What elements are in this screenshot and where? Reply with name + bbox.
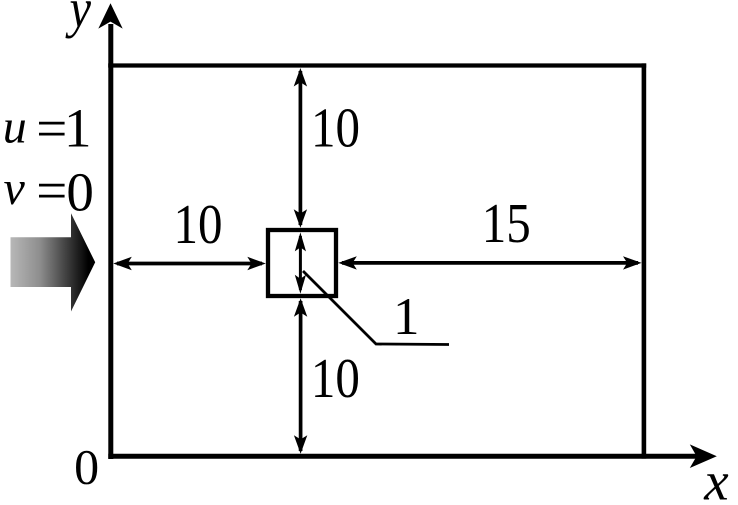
svg-text:1: 1 (393, 288, 420, 346)
svg-text:10: 10 (174, 194, 223, 256)
svg-text:v: v (4, 162, 26, 215)
bottom dimension arrow shaft (299, 301, 303, 451)
left dimension arrow shaft (117, 262, 262, 266)
svg-text:10: 10 (311, 348, 360, 410)
svg-text:y: y (65, 0, 92, 40)
svg-text:0: 0 (74, 438, 99, 494)
square cylinder obstacle (268, 230, 336, 296)
inner square arrow down head (295, 275, 306, 294)
domain top wall (108, 63, 646, 67)
y-axis (108, 24, 113, 459)
svg-text:u: u (3, 101, 27, 154)
svg-text:=: = (36, 160, 67, 221)
top dimension arrow up head (294, 68, 307, 87)
top dimension arrow shaft (299, 71, 303, 225)
right dimension arrow right head (623, 256, 642, 269)
inner square dimension arrow shaft (299, 236, 302, 290)
svg-text:=: = (36, 98, 67, 159)
svg-text:x: x (703, 451, 729, 501)
left dimension arrow left head (113, 257, 132, 270)
svg-text:10: 10 (311, 98, 360, 160)
leader line to label 1 (303, 271, 449, 345)
domain right wall (642, 63, 647, 458)
left dimension arrow right head (247, 257, 265, 270)
x-axis (108, 454, 697, 459)
svg-text:0: 0 (66, 161, 94, 222)
x-axis arrowhead (690, 444, 717, 468)
inlet block arrow (gradient) (11, 213, 96, 311)
bottom dimension arrow up head (294, 298, 307, 317)
right dimension arrow left head (338, 256, 357, 269)
top dimension arrow down head (294, 209, 307, 228)
right dimension arrow shaft (342, 261, 638, 265)
svg-text:15: 15 (482, 193, 531, 255)
svg-text:1: 1 (64, 98, 92, 159)
inner square arrow up head (295, 232, 306, 251)
bottom dimension arrow down head (294, 435, 307, 454)
y-axis arrowhead (98, 3, 122, 28)
